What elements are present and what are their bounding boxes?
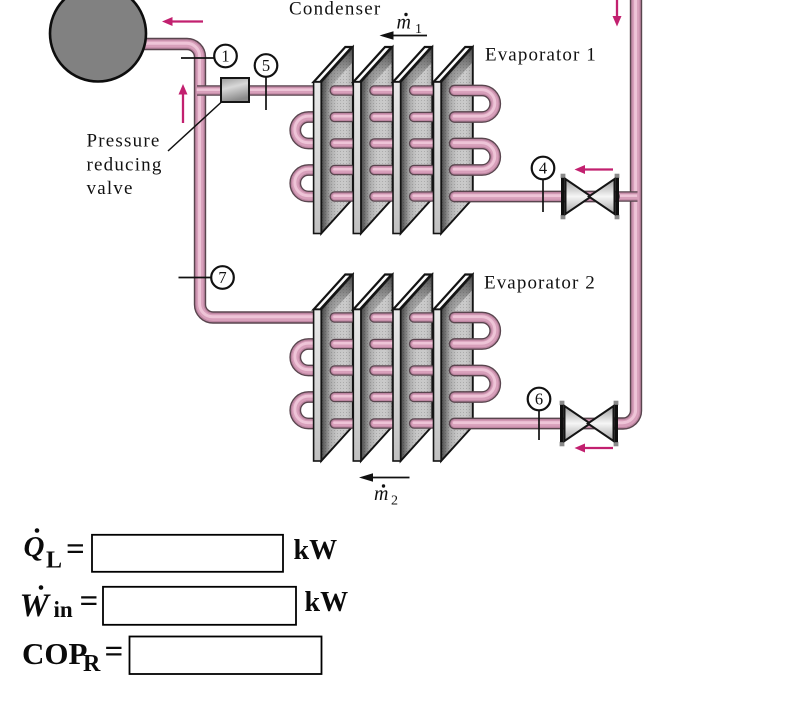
svg-text:=: = (80, 583, 99, 619)
flow arrow into expansion valve 6 (575, 444, 614, 453)
evaporator 2 plate 2 (353, 275, 392, 462)
evaporator 1 tube stub row 1 gap 3 (414, 84, 432, 95)
evaporator 1 tube stub row 5 gap 1 (334, 190, 352, 201)
svg-text:Evaporator 1: Evaporator 1 (485, 45, 597, 66)
evaporator 2 tube stub row 3 gap 2 (374, 364, 392, 375)
svg-text:in: in (54, 597, 73, 622)
svg-text:5: 5 (262, 56, 270, 75)
evaporator 1 left U-bend rows 2-3 (295, 116, 317, 143)
mass flow arrow m2 (359, 473, 410, 482)
svg-text:reducing: reducing (87, 155, 163, 176)
evaporator 1 right U-bend rows 3-4 (454, 143, 495, 170)
answer box W_in (103, 587, 296, 625)
svg-text:1: 1 (415, 22, 422, 37)
svg-text:kW: kW (305, 587, 349, 618)
evaporator 1 tube stub row 5 gap 3 (414, 190, 432, 201)
mass flow arrow m1 (380, 31, 428, 40)
wire evaporator 1 row 5 exit pipe to expansion valve (454, 190, 614, 203)
wire evaporator 1 inlet pipe through pressure reducing valve (197, 84, 317, 95)
evaporator 2 tube stub row 2 gap 1 (334, 338, 352, 349)
evaporator 1 tube stub row 3 gap 2 (374, 137, 392, 148)
evaporator 1 tube stub row 2 gap 3 (414, 111, 432, 122)
evaporator 1 tube stub row 1 gap 1 (334, 84, 352, 95)
evaporator 2 tube stub row 2 gap 2 (374, 338, 392, 349)
compressor (gray circle, partially cut off at top) (50, 0, 146, 82)
evaporator 1 tube stub row 1 gap 2 (374, 84, 392, 95)
evaporator 1 right U-bend rows 1-2 (454, 90, 495, 117)
svg-text:Q: Q (24, 531, 45, 563)
evaporator 2 tube stub row 1 gap 1 (334, 311, 352, 322)
evaporator 1 tube stub row 4 gap 2 (374, 164, 392, 175)
label W-dot in = (20, 583, 99, 624)
label m-dot 1 (397, 12, 423, 38)
flow arrow at compressor inlet (left) (162, 17, 203, 26)
evaporator 2 plate 1 (314, 275, 353, 462)
node 1 (181, 45, 237, 68)
flow arrow up along left pipe (179, 84, 188, 123)
svg-text:2: 2 (391, 494, 398, 509)
flow arrow down along right return pipe (613, 0, 622, 27)
evaporator 2 plate 3 (393, 275, 432, 462)
pressure reducing valve block (221, 78, 249, 102)
evaporator 1 tube stub row 3 gap 1 (334, 137, 352, 148)
label COP R = (22, 634, 123, 677)
evaporator 1 tube stub row 4 gap 3 (414, 164, 432, 175)
svg-text:7: 7 (218, 268, 226, 287)
evaporator 2 tube stub row 4 gap 2 (374, 391, 392, 402)
evaporator 1 plate 2 (353, 47, 392, 234)
evaporator 2 left U-bend rows 2-3 (295, 343, 317, 370)
evaporator 2 tube stub row 5 gap 2 (374, 417, 392, 428)
node 5 (255, 54, 278, 110)
wire right return pipe from condenser down to expansion valve 6 (600, 0, 636, 423)
svg-text:m: m (374, 483, 388, 505)
svg-text:valve: valve (87, 178, 134, 199)
answer box Q_L (92, 535, 283, 572)
svg-text:6: 6 (535, 390, 543, 409)
wire main trunk: compressor outlet down-left pipe to evaporator 2 inlet (138, 43, 317, 317)
evaporator 1 tube stub row 2 gap 1 (334, 111, 352, 122)
wire expansion valve 4 outlet link to right return pipe (560, 190, 638, 201)
label Pressure reducing valve (87, 131, 163, 200)
evaporator 1 plate 4 (434, 47, 473, 234)
evaporator 2 tube stub row 3 gap 1 (334, 364, 352, 375)
label Q-dot L = (24, 528, 85, 573)
evaporator 1 left U-bend rows 4-5 (295, 169, 317, 196)
evaporator 2 plate 4 (434, 275, 473, 462)
svg-text:Pressure: Pressure (87, 131, 161, 152)
svg-text:4: 4 (539, 159, 547, 178)
evaporator 2 tube stub row 5 gap 1 (334, 417, 352, 428)
wire evaporator 2 row 5 exit pipe to expansion valve (454, 417, 612, 430)
evaporator 1 tube stub row 4 gap 1 (334, 164, 352, 175)
node 6 (528, 388, 551, 440)
evaporator 2 right U-bend rows 3-4 (454, 370, 495, 397)
svg-text:Evaporator 2: Evaporator 2 (484, 273, 596, 294)
evaporator 2 tube stub row 5 gap 3 (414, 417, 432, 428)
pointer line from label to pressure reducing valve (168, 102, 222, 152)
svg-text:W: W (20, 588, 52, 624)
evaporator 2 tube stub row 4 gap 1 (334, 391, 352, 402)
svg-text:COP: COP (22, 636, 88, 671)
evaporator 2 tube stub row 1 gap 3 (414, 311, 432, 322)
svg-text:m: m (397, 12, 411, 34)
svg-text:R: R (83, 651, 101, 677)
flow arrow into expansion valve 4 (575, 165, 614, 174)
evaporator 2 tube stub row 3 gap 3 (414, 364, 432, 375)
node 7 (179, 266, 234, 289)
answer box COP_R (130, 637, 322, 675)
evaporator 2 tube stub row 1 gap 2 (374, 311, 392, 322)
evaporator 1 tube stub row 2 gap 2 (374, 111, 392, 122)
label m-dot 2 (374, 483, 398, 509)
evaporator 1 tube stub row 3 gap 3 (414, 137, 432, 148)
evaporator 1 tube stub row 5 gap 2 (374, 190, 392, 201)
svg-text:L: L (46, 548, 62, 574)
expansion valve near node 4 (561, 174, 620, 220)
expansion valve near node 6 (560, 401, 619, 447)
evaporator 1 plate 3 (393, 47, 432, 234)
svg-text:Condenser: Condenser (289, 0, 382, 20)
svg-text:kW: kW (294, 535, 338, 566)
node 4 (532, 157, 555, 212)
evaporator 2 right U-bend rows 1-2 (454, 317, 495, 344)
evaporator 2 tube stub row 2 gap 3 (414, 338, 432, 349)
evaporator 1 plate 1 (314, 47, 353, 234)
evaporator 2 tube stub row 4 gap 3 (414, 391, 432, 402)
svg-text:=: = (105, 634, 124, 670)
evaporator 2 left U-bend rows 4-5 (295, 396, 317, 423)
svg-text:=: = (66, 532, 85, 568)
svg-text:1: 1 (221, 47, 229, 66)
